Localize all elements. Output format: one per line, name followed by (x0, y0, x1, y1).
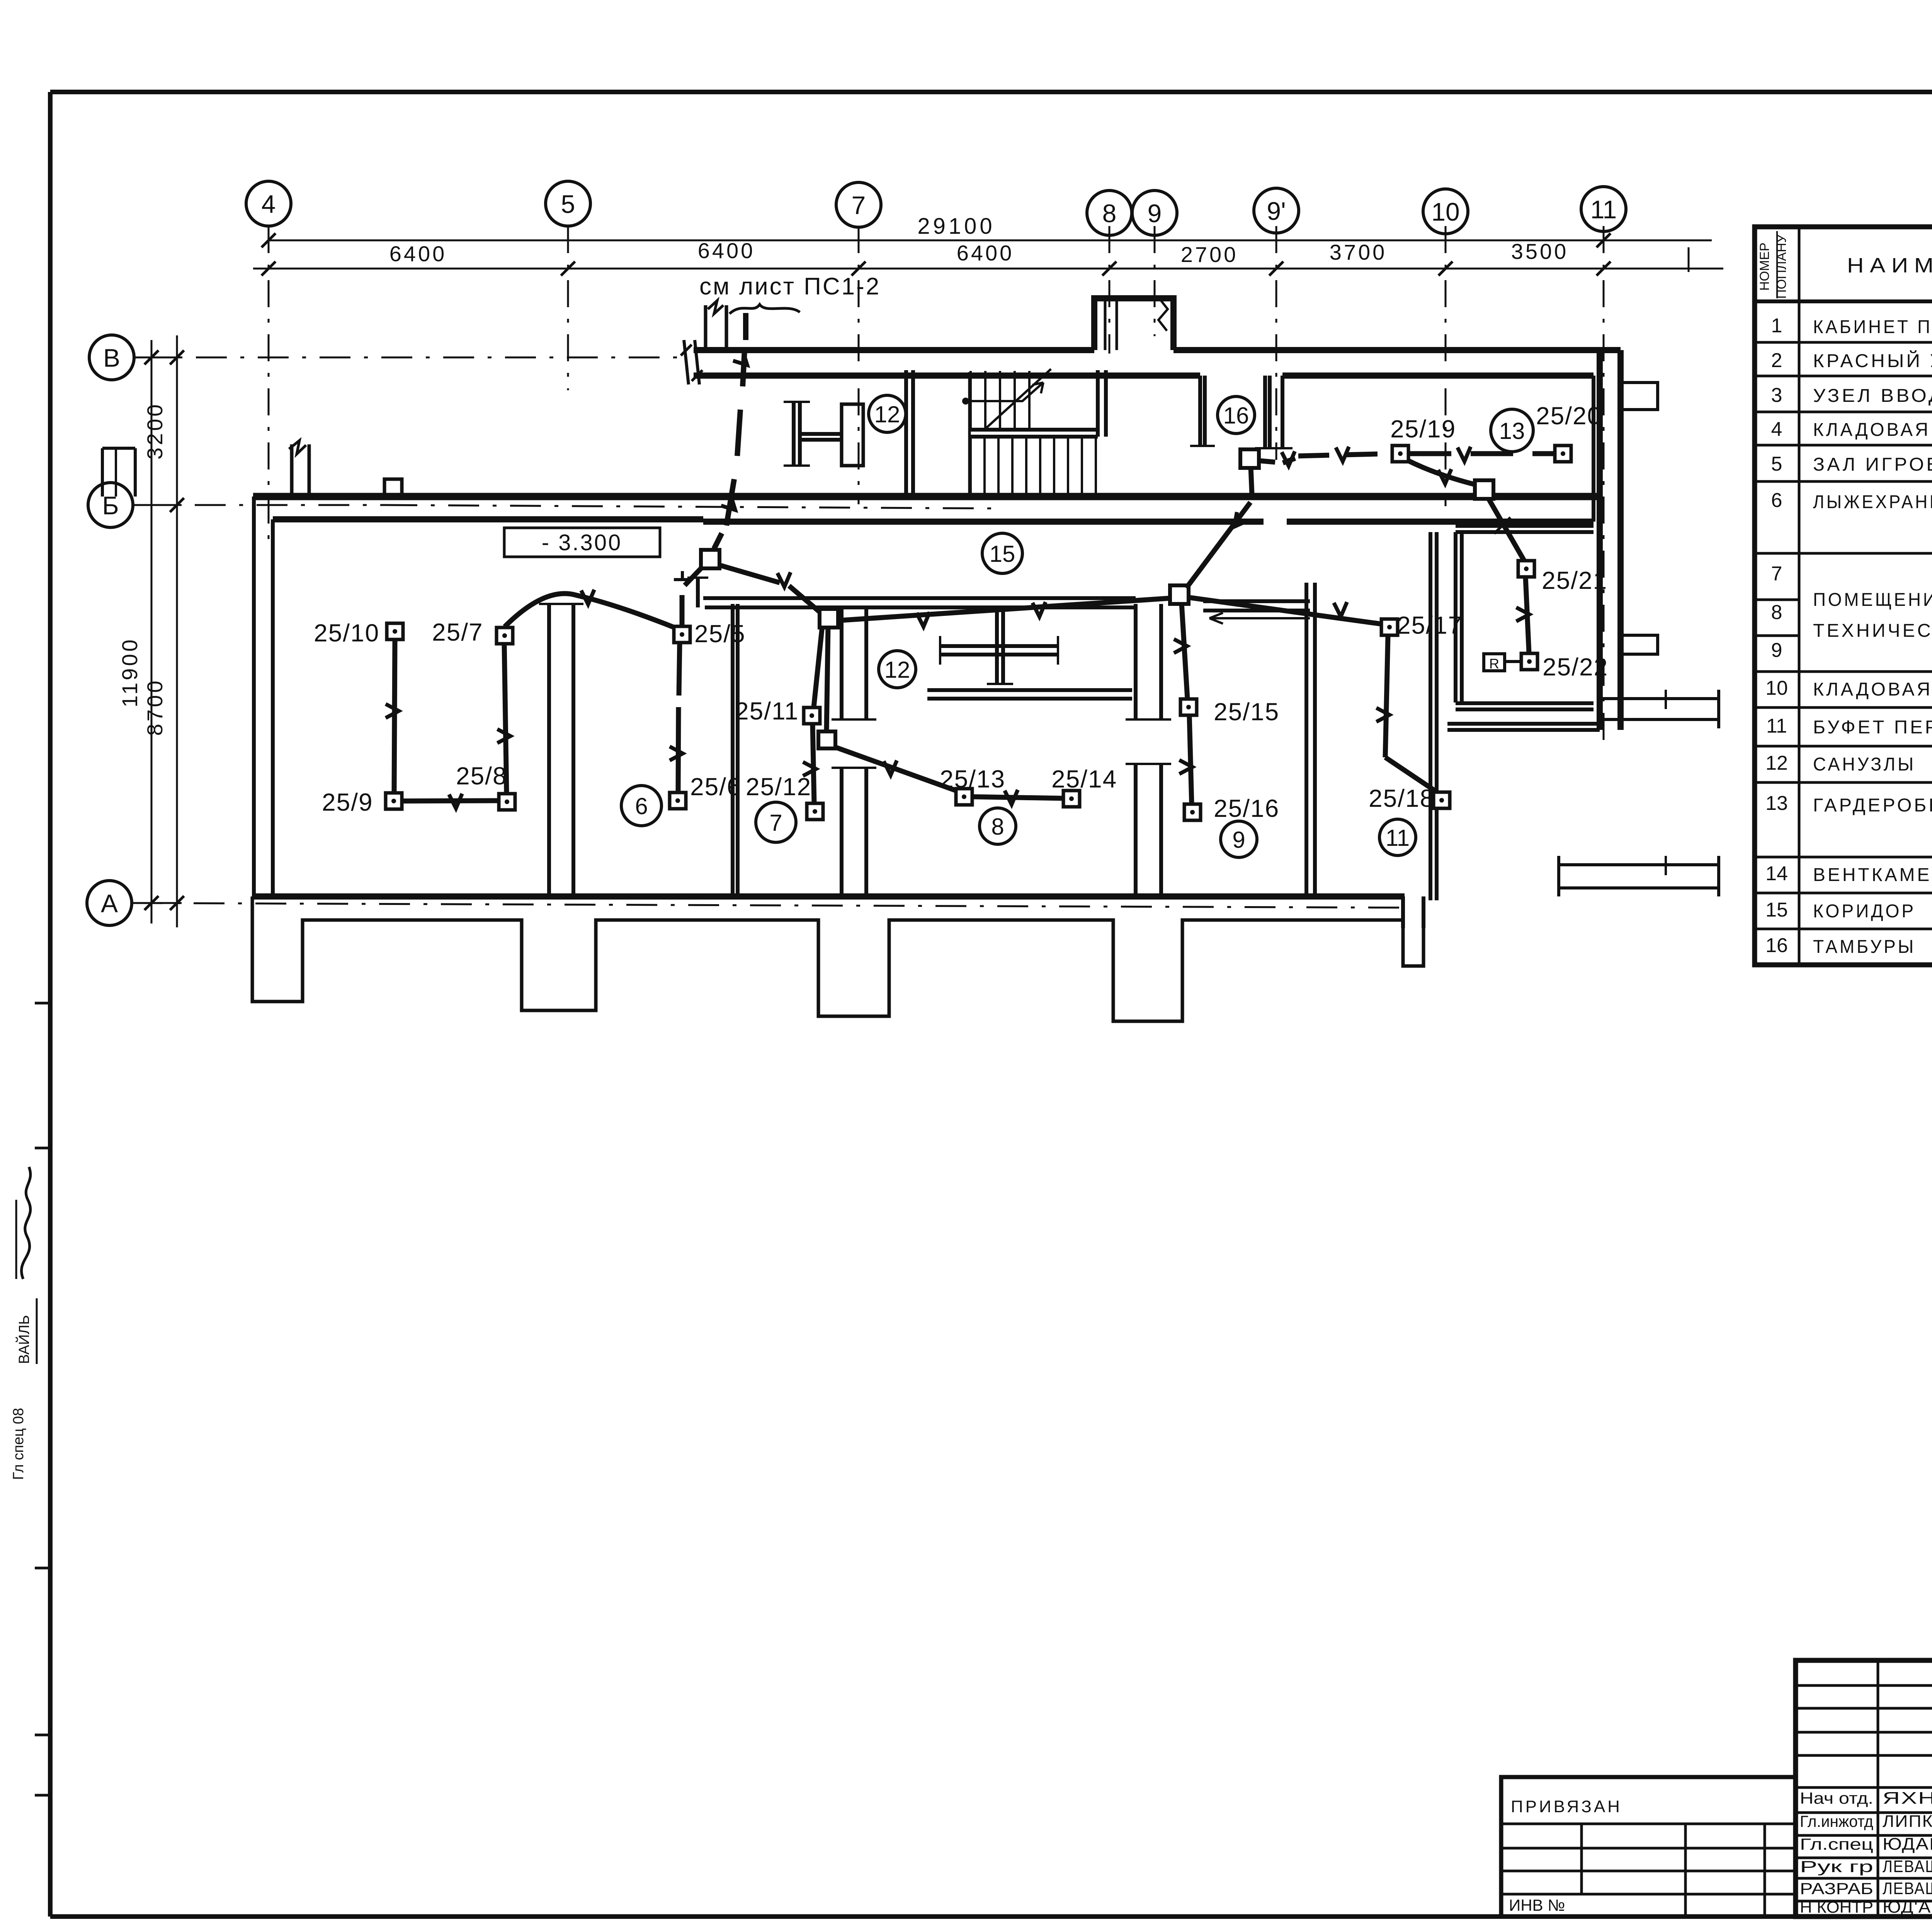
axis circle 8 (1087, 190, 1132, 235)
wall: lower-left block west outer (252, 497, 256, 896)
table row line y=1152 (1755, 444, 1932, 447)
room circle 11 (1379, 819, 1416, 855)
v arrow on arc (581, 590, 594, 604)
wire 25/7 down to 25/8 (504, 644, 507, 793)
svg-text:9: 9 (1148, 199, 1162, 228)
arrow on 25/21-25/22 wire (1516, 607, 1529, 621)
svg-text:7: 7 (852, 191, 866, 219)
stair upper flight treads (969, 371, 972, 430)
svg-text:6: 6 (635, 793, 648, 819)
svg-text:КОРИДОР: КОРИДОР (1813, 901, 1916, 922)
title block outer frame (1796, 1660, 1932, 1917)
wire J3 down to 25/15 (1182, 604, 1187, 699)
detector 25/7 (497, 628, 513, 644)
svg-text:25/9: 25/9 (322, 788, 373, 816)
svg-text:ЮД'АНОВ: ЮД'АНОВ (1883, 1898, 1932, 1917)
table row line y=1246 (1755, 480, 1932, 483)
left margin ticks (35, 1002, 51, 1005)
arrow on 25/7-25/8 wire (497, 729, 510, 743)
sheet frame left border (48, 92, 53, 1917)
axis В horizontal line (134, 357, 684, 359)
room circle 7 (756, 802, 796, 842)
table row line y=2404 (1755, 928, 1932, 930)
detector 25/20 (1555, 446, 1571, 462)
title block signature table verticals (1877, 1660, 1879, 1917)
svg-text:САНУЗЛЫ: САНУЗЛЫ (1813, 754, 1916, 775)
stair direction arrow upper (962, 398, 969, 405)
wire 25/7 arc to 25/5 (505, 594, 675, 628)
room8 interior bench vertical (995, 607, 999, 684)
wall between room12 and stairwell (904, 370, 908, 497)
svg-text:8: 8 (1102, 199, 1117, 228)
wire J6 down to 25/21 crossing wall (1488, 498, 1524, 560)
arrow on 25/10-25/9 wire (386, 704, 399, 718)
wall: right rooms mid horizontal pair (south of room 13) (1287, 526, 1456, 526)
wire J3 to 25/17 (1188, 597, 1382, 624)
wire J2 east along corridor (837, 598, 1171, 621)
v arrow on J5-25/19 wire (1336, 447, 1349, 461)
room circle 12 (869, 395, 906, 432)
svg-text:25/13: 25/13 (940, 765, 1005, 793)
attachment verticals (1580, 1824, 1583, 1894)
table row line y=2311 (1755, 892, 1932, 895)
axis circle 5 (546, 181, 590, 226)
svg-text:ПОМЕЩЕНИЕ ДЕЖУРНОГО: ПОМЕЩЕНИЕ ДЕЖУРНОГО (1813, 590, 1932, 610)
right block lower wall pair (1447, 722, 1600, 726)
svg-text:2700: 2700 (1181, 242, 1238, 267)
svg-text:9: 9 (1771, 639, 1782, 662)
sheet frame top border (50, 90, 1932, 94)
svg-text:В: В (103, 344, 120, 372)
wire J2b to 25/13 (833, 747, 956, 791)
detector 25/11 (804, 707, 820, 724)
svg-text:25/8: 25/8 (456, 762, 507, 790)
svg-text:4: 4 (1771, 418, 1782, 440)
axis 4 vertical line (268, 226, 270, 541)
v arrow on 25/19-25/20 wire (1458, 447, 1471, 461)
svg-text:13: 13 (1765, 792, 1788, 815)
svg-text:ЛЕВАШОВА: ЛЕВАШОВА (1883, 1879, 1932, 1898)
svg-text:R: R (1489, 656, 1499, 672)
wall: В axis exterior outer line (694, 347, 1094, 353)
table row line y=1738 (1755, 670, 1932, 673)
corridor 15 south wall west part (703, 596, 1136, 600)
room circle 12 (879, 651, 916, 688)
wire 25/19 to 25/20 (1409, 451, 1554, 456)
room12 toilet rectangle (842, 404, 863, 466)
table row line y=2218 (1755, 856, 1932, 859)
svg-text:КРАСНЫЙ УГОЛОК: КРАСНЫЙ УГОЛОК (1813, 350, 1932, 371)
svg-text:4: 4 (262, 190, 276, 218)
svg-text:25/17: 25/17 (1397, 611, 1463, 639)
svg-text:ЛИПКИНД: ЛИПКИНД (1883, 1812, 1932, 1831)
svg-text:11: 11 (1766, 715, 1787, 737)
svg-text:10: 10 (1431, 197, 1459, 226)
room12 fixture horizontal pair (800, 432, 842, 436)
svg-text:Нач отд.: Нач отд. (1800, 1789, 1873, 1807)
svg-text:8: 8 (1771, 601, 1782, 624)
table row line y=886 (1755, 341, 1932, 344)
svg-text:Гл.инжотд: Гл.инжотд (1800, 1812, 1873, 1830)
svg-text:Гл спец 08: Гл спец 08 (10, 1408, 27, 1480)
junction box J2 (820, 609, 838, 628)
arrow on 25/11-25/12 wire (803, 762, 816, 776)
svg-text:ВАЙЛЬ: ВАЙЛЬ (15, 1315, 32, 1364)
bottom right tab (1559, 856, 1719, 896)
axis 11 vertical line (1603, 226, 1605, 746)
svg-text:11: 11 (1590, 195, 1617, 224)
svg-text:25/18: 25/18 (1369, 784, 1434, 812)
wall: А axis outer line (bottom) (254, 893, 1405, 900)
axis 10 vertical line (1445, 226, 1447, 506)
svg-text:3: 3 (1771, 384, 1782, 406)
v arrow at tambour door (1282, 451, 1295, 466)
axis circle 11 (1581, 187, 1626, 231)
wire 25/19 diagonal to J6 (1406, 460, 1477, 485)
partition P6 right corridor west wall (1429, 532, 1432, 900)
corridor 15 south wall east part (1203, 599, 1310, 603)
wire J1 to 25/5 drop (685, 567, 702, 585)
axis circle В (89, 335, 134, 380)
v arrow on J3-25/17 wire (1334, 602, 1347, 617)
axis 9 vertical line (1154, 226, 1156, 336)
svg-text:12: 12 (1765, 752, 1788, 774)
v arrow on 25/19-J6 wire (1438, 469, 1451, 484)
room table header underline (1755, 299, 1932, 303)
room circle 8 (980, 808, 1016, 844)
svg-text:КАБИНЕТ ПОЛИТПРОСВЕЩЕНИЯ: КАБИНЕТ ПОЛИТПРОСВЕЩЕНИЯ (1813, 317, 1932, 337)
left segment dimensions 3200/8700 (176, 335, 178, 927)
title block signature rows (1796, 1811, 1932, 1814)
detector 25/19 (1392, 446, 1408, 462)
axis circle 10 (1423, 189, 1468, 234)
attachment ПРИВЯЗАН row line (1501, 1823, 1796, 1825)
stair lower flight treads (969, 437, 972, 497)
svg-text:29100: 29100 (917, 214, 995, 239)
svg-text:25/10: 25/10 (314, 619, 379, 647)
svg-text:НАИМЕНОВАНИЕ: НАИМЕНОВАНИЕ (1847, 254, 1932, 277)
partition P5 room9 east wall (1304, 583, 1308, 896)
partition P1 (wide pair) between rooms (547, 604, 551, 896)
wall: В axis exterior inner line (694, 372, 1200, 379)
table row line y=1066 (1755, 411, 1932, 413)
svg-text:ТЕХНИЧЕСКОГО ПЕРСОНАЛА: ТЕХНИЧЕСКОГО ПЕРСОНАЛА (1813, 621, 1932, 641)
arrow on 25/17-25/18 wire (1376, 708, 1389, 722)
room circle 15 (982, 533, 1022, 573)
stairwell east wall (1096, 370, 1100, 437)
level mark box -3.300 (504, 528, 660, 557)
svg-text:8: 8 (991, 814, 1004, 840)
bump on Б wall (384, 479, 402, 497)
svg-text:НОМЕР: НОМЕР (1757, 243, 1772, 291)
arrow on 25/5-25/6 wire (670, 747, 683, 760)
v arrow on J2b-25/13 wire (884, 760, 897, 775)
axis circle 4 (246, 181, 291, 226)
wire J1 to J2 with v (719, 565, 780, 583)
partition P2 thin pair room6/7 (731, 604, 735, 896)
wire 25/17 down then to 25/18 (1385, 636, 1388, 757)
wall: right block east inner (1592, 376, 1595, 522)
room8 interior bench horizontal (940, 644, 1058, 648)
room circle 13 (1491, 409, 1533, 452)
wire 25/11 down to 25/12 (813, 724, 814, 803)
wire J5 east to 25/19 (1298, 454, 1392, 456)
partition P4 lower segment (1134, 764, 1138, 895)
wire 25/10 down to 25/9 (394, 640, 395, 792)
svg-text:6: 6 (1771, 489, 1782, 512)
svg-text:ИНВ №: ИНВ № (1509, 1896, 1565, 1914)
svg-text:ПРИВЯЗАН: ПРИВЯЗАН (1511, 1797, 1622, 1816)
svg-text:25/20: 25/20 (1536, 402, 1602, 430)
wire 25/15 down to 25/16 (1189, 716, 1192, 804)
ventilation arrow in room 9 (1209, 613, 1310, 624)
detector 25/22 (1521, 653, 1537, 670)
room 25/21 south wall pair (1456, 701, 1594, 705)
detector 25/8 (499, 794, 515, 810)
svg-text:6400: 6400 (957, 241, 1014, 265)
table row line y=1552 (1755, 599, 1799, 601)
v arrow corridor wire 1 (917, 612, 930, 627)
sheet frame bottom border (50, 1914, 1932, 1919)
svg-text:11: 11 (1386, 825, 1410, 851)
svg-text:6400: 6400 (389, 241, 447, 266)
junction box J5 (1240, 449, 1259, 468)
title block upper small rows (1796, 1684, 1932, 1687)
arrow 25/15-25/16 (1179, 760, 1192, 774)
detector 25/5 (674, 626, 690, 643)
detector 25/9 (386, 793, 402, 809)
partition P3 lower segment (840, 768, 844, 896)
room 25/21 west wall pair (1454, 532, 1458, 702)
svg-text:2: 2 (1771, 349, 1782, 372)
svg-text:16: 16 (1223, 403, 1249, 429)
wire J2 to 25/11 (814, 626, 822, 707)
svg-text:5: 5 (1771, 453, 1782, 475)
partition P4 wide pair room8/9 upper (1134, 604, 1138, 719)
room circle 9 (1221, 821, 1257, 857)
wire J5 down and diagonal to J3 (1251, 467, 1252, 495)
detector 25/10 (387, 623, 403, 639)
svg-text:14: 14 (1765, 862, 1788, 885)
detector 25/16 (1184, 804, 1201, 820)
right exterior tab 1 (1621, 383, 1658, 410)
axis circle 7 (836, 182, 881, 227)
axis circle 9 (1132, 190, 1177, 235)
junction box J2b (818, 731, 835, 748)
wall break symbol at start of В wall (684, 340, 689, 384)
svg-text:УЗЕЛ ВВОДА: УЗЕЛ ВВОДА (1813, 386, 1932, 406)
table row line y=1645 (1755, 634, 1799, 637)
wall: corridor north inner line (703, 519, 1264, 525)
svg-text:ТАМБУРЫ: ТАМБУРЫ (1813, 937, 1916, 957)
partition room5 corner piece (696, 578, 700, 607)
svg-text:25/11: 25/11 (735, 697, 799, 725)
axis circle Б (88, 483, 133, 527)
wire 25/9 to 25/8 (402, 801, 510, 801)
detector 25/12 (807, 803, 823, 820)
svg-text:ЯХНИС: ЯХНИС (1883, 1789, 1932, 1808)
svg-text:25/12: 25/12 (746, 773, 811, 801)
arrow J3-25/15 (1174, 639, 1187, 653)
wire 25/13 to 25/14 (973, 797, 1063, 798)
wire receiver to 25/22 (1505, 660, 1521, 663)
table row line y=973 (1755, 375, 1932, 378)
svg-text:ВЕНТКАМЕРА: ВЕНТКАМЕРА (1813, 865, 1932, 885)
svg-text:- 3.300: - 3.300 (542, 530, 622, 555)
svg-text:10: 10 (1765, 677, 1788, 699)
tambour 16 partition east pair (1263, 376, 1267, 448)
svg-text:РАЗРАБ: РАЗРАБ (1800, 1879, 1873, 1898)
svg-text:БУФЕТ ПЕРСОНАЛА: БУФЕТ ПЕРСОНАЛА (1813, 717, 1932, 738)
svg-text:16: 16 (1765, 934, 1788, 957)
table row line y=1931 (1755, 745, 1932, 748)
svg-text:25/19: 25/19 (1390, 415, 1456, 443)
axis А horizontal line (132, 903, 1406, 908)
wall stub above В wall with break (704, 305, 707, 350)
stairwell west boundary (968, 372, 971, 497)
wall: right block east pair (1597, 350, 1603, 730)
pilaster on Б wall west with break symbol (290, 444, 294, 497)
svg-text:ГАРДЕРОБНАЯ ПЕРСОНАЛА: ГАРДЕРОБНАЯ ПЕРСОНАЛА (1813, 795, 1932, 816)
svg-text:Рук гр: Рук гр (1800, 1857, 1873, 1876)
junction box J6 (1475, 480, 1493, 499)
segment dimension line 6400/6400/6400/2700/3700/3500 (253, 268, 1723, 270)
detector 25/21 (1518, 561, 1534, 577)
svg-text:КЛАДОВАЯ СПОРТИНВЕНТАРЯ: КЛАДОВАЯ СПОРТИНВЕНТАРЯ (1813, 679, 1932, 700)
tambour 16 partition west pair (1198, 376, 1202, 446)
svg-text:7: 7 (1771, 563, 1782, 585)
tambour 16 door jamb (1281, 376, 1284, 448)
junction box J3 (1170, 585, 1189, 604)
left overall dimension 11900 (151, 340, 153, 923)
svg-text:25/14: 25/14 (1051, 765, 1117, 793)
detector 25/17 (1381, 619, 1398, 635)
axis 8 vertical line (1109, 226, 1111, 354)
axis 7 vertical line (858, 226, 860, 504)
svg-text:25/7: 25/7 (432, 618, 483, 646)
svg-text:Н КОНТР: Н КОНТР (1800, 1898, 1873, 1916)
detector 25/14 (1063, 791, 1080, 807)
v arrow on 25/9-25/8 wire (449, 794, 462, 808)
overall dimension line 29100 (269, 240, 1712, 241)
axis Б horizontal line (133, 504, 386, 506)
wall: lower-left block west inner (271, 519, 275, 896)
partition P3 wide pair room7/8 upper (840, 606, 844, 719)
exterior porch element west of block (102, 448, 135, 497)
attachment table frame (1501, 1777, 1796, 1917)
riser arrow 2 (721, 496, 740, 515)
detector 25/6 (670, 793, 686, 809)
room8 south partition (927, 688, 1132, 692)
axis circle А (87, 881, 132, 925)
svg-text:КЛАДОВАЯ: КЛАДОВАЯ (1813, 420, 1930, 440)
svg-text:Гл.спец: Гл.спец (1800, 1835, 1873, 1853)
room circle 16 (1218, 396, 1255, 434)
stair exit porch on В wall (1094, 298, 1173, 350)
svg-text:15: 15 (990, 541, 1015, 567)
wall: Б axis inner line west (room5 top) (273, 516, 703, 522)
v arrow on J1-J2 wire (777, 572, 791, 587)
detector 25/15 (1180, 699, 1197, 715)
svg-text:12: 12 (874, 401, 900, 427)
right block bottom step walls (1401, 896, 1405, 928)
svg-text:25/21: 25/21 (1542, 566, 1607, 594)
svg-text:ЗАЛ ИГРОВЫХ АВТОМАТОВ: ЗАЛ ИГРОВЫХ АВТОМАТОВ (1813, 454, 1932, 475)
axis 5 vertical line (567, 226, 569, 390)
svg-text:9': 9' (1267, 197, 1286, 225)
svg-text:13: 13 (1499, 418, 1525, 444)
table row line y=1831 (1755, 706, 1932, 709)
svg-text:7: 7 (769, 810, 782, 836)
wall: А axis lower line with foundation piers (252, 896, 1423, 1021)
detector 25/18 (1434, 792, 1450, 808)
receiver station box (1484, 654, 1505, 671)
right exterior tab 2 (1621, 635, 1658, 654)
wire 25/5 down to 25/6 (679, 643, 680, 696)
table row line y=2025 (1755, 781, 1932, 784)
svg-text:15: 15 (1765, 899, 1788, 921)
room circle 6 (621, 786, 662, 826)
room12 west partition with end ticks (792, 402, 796, 466)
svg-text:25/15: 25/15 (1214, 698, 1279, 726)
detector 25/13 (956, 789, 972, 805)
svg-text:5: 5 (561, 190, 575, 218)
arrow on J5-J3 wire (1229, 512, 1248, 531)
room table column line 1 (1798, 227, 1801, 965)
svg-text:см лист ПС1-2: см лист ПС1-2 (699, 273, 881, 300)
attachment rows (1501, 1847, 1796, 1850)
svg-text:25/22: 25/22 (1543, 653, 1608, 681)
junction box J1 (701, 550, 719, 568)
svg-text:25/16: 25/16 (1214, 794, 1279, 822)
riser wire from В wall to junction J1 (bold dashes) (743, 313, 748, 340)
svg-text:3200: 3200 (143, 402, 167, 460)
wire J5 tambour segment (1258, 461, 1275, 462)
wire J2 down to J2b (827, 627, 828, 731)
svg-text:11900: 11900 (117, 637, 142, 707)
stair upper flight cut line (986, 369, 1051, 428)
svg-text:ЛЕВАШОВА: ЛЕВАШОВА (1883, 1857, 1932, 1876)
svg-text:6400: 6400 (698, 238, 755, 263)
axis circle 9' (1254, 188, 1299, 233)
room table outer frame (1755, 227, 1932, 965)
left margin signature (22, 1167, 31, 1279)
right exterior long tab (1600, 690, 1719, 728)
svg-text:А: А (101, 889, 118, 918)
stairwell landing wall (971, 428, 1098, 432)
brace under note (730, 304, 800, 314)
wall: right block Б inner line (1287, 519, 1594, 525)
svg-text:12: 12 (884, 657, 910, 683)
svg-text:1: 1 (1771, 315, 1782, 337)
riser arrow 1 (733, 351, 752, 370)
svg-text:ЛЫЖЕХРАНИЛИЩЕ: ЛЫЖЕХРАНИЛИЩЕ (1813, 492, 1932, 512)
table row line y=1432 (1755, 552, 1932, 555)
svg-text:ЮДАНОВ: ЮДАНОВ (1883, 1835, 1932, 1854)
svg-text:3700: 3700 (1330, 240, 1387, 264)
v arrow corridor wire 2 (1032, 602, 1046, 617)
axis 9' vertical line (1276, 226, 1277, 460)
svg-text:3500: 3500 (1511, 239, 1569, 264)
wall: Б axis outer line (253, 493, 1600, 500)
svg-text:8700: 8700 (143, 679, 167, 736)
v arrow on 25/13-25/14 wire (1005, 790, 1018, 804)
svg-text:25/5: 25/5 (694, 620, 746, 648)
svg-text:25/6: 25/6 (690, 773, 742, 801)
wire 25/21 down to 25/22 (1526, 577, 1529, 653)
svg-text:9: 9 (1232, 827, 1245, 853)
